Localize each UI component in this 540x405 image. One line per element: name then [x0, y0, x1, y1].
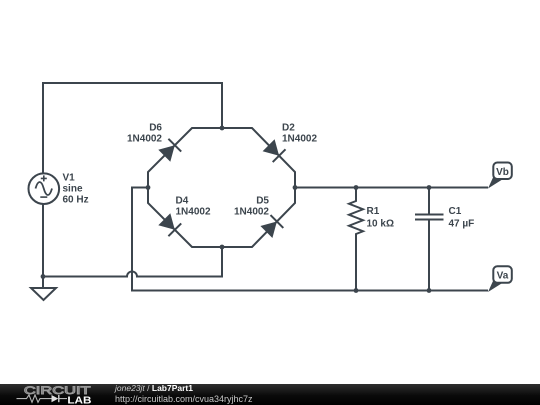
svg-text:1N4002: 1N4002 — [234, 207, 269, 218]
svg-text:1N4002: 1N4002 — [282, 134, 317, 145]
svg-text:D4: D4 — [176, 196, 189, 207]
wire bridge left node to bottom rail to Va — [132, 188, 488, 291]
wire bridge bottom node down and left to ground node (with hop) — [43, 247, 222, 277]
terminal flag Vb — [488, 163, 512, 189]
voltage source V1 circle — [29, 173, 60, 204]
node: R1 top junction — [354, 185, 359, 190]
node: bridge top junction — [220, 126, 225, 131]
wire top from V1 to bridge top — [43, 83, 222, 174]
svg-text:R1: R1 — [367, 206, 380, 217]
svg-text:D6: D6 — [149, 123, 162, 134]
diode D2 — [263, 139, 286, 162]
node: bridge right junction — [293, 185, 298, 190]
node: ground junction — [41, 274, 46, 279]
svg-text:Va: Va — [497, 271, 509, 282]
bridge octagon outline — [148, 128, 295, 247]
svg-text:1N4002: 1N4002 — [127, 134, 162, 145]
diode D6 — [158, 139, 181, 162]
diode D5 — [260, 215, 283, 238]
svg-text:sine: sine — [63, 184, 83, 195]
footer credit line — [115, 383, 193, 393]
ground — [31, 277, 56, 301]
node: R1 bottom junction — [354, 288, 359, 293]
V1 sine symbol — [36, 182, 53, 195]
node: C1 top junction — [427, 185, 432, 190]
node: bridge left junction — [146, 185, 151, 190]
svg-text:1N4002: 1N4002 — [176, 207, 211, 218]
node: bridge bottom junction — [220, 245, 225, 250]
svg-text:60 Hz: 60 Hz — [63, 195, 89, 206]
wire bridge right node to Vb — [295, 187, 488, 189]
diode D4 — [158, 213, 181, 236]
node: C1 bottom junction — [427, 288, 432, 293]
capacitor C1 — [415, 188, 444, 291]
footer branding bar — [0, 384, 540, 405]
svg-text:Vb: Vb — [496, 167, 509, 178]
terminal flag Va — [488, 266, 512, 292]
svg-text:V1: V1 — [63, 173, 76, 184]
footer url line — [115, 394, 253, 404]
svg-text:D5: D5 — [256, 196, 269, 207]
svg-text:10 kΩ: 10 kΩ — [367, 219, 394, 230]
svg-text:D2: D2 — [282, 123, 295, 134]
svg-text:LAB: LAB — [67, 394, 92, 405]
wire V1 bottom to ground node — [42, 204, 44, 277]
svg-text:C1: C1 — [449, 206, 462, 217]
svg-text:47 µF: 47 µF — [449, 219, 475, 230]
V1 minus sign — [40, 196, 47, 198]
CircuitLab logo — [0, 384, 110, 405]
V1 plus sign — [41, 175, 47, 181]
resistor R1 — [349, 188, 363, 291]
